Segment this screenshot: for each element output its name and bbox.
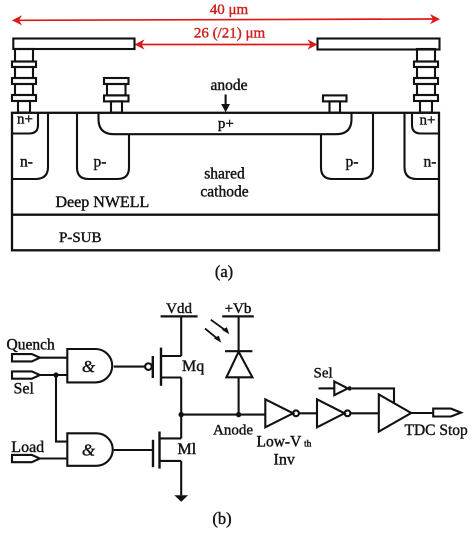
node at sel inverter output <box>348 386 352 390</box>
svg-text:40 μm: 40 μm <box>210 2 249 18</box>
svg-text:Ml: Ml <box>178 441 197 458</box>
wire Ml drain up to anode node <box>180 415 182 439</box>
transistor Mq (PMOS) <box>145 348 181 386</box>
wire sel branch down to AND2 <box>56 375 67 442</box>
wire buffer to pad <box>411 412 433 414</box>
wire Ml source down <box>180 461 182 495</box>
svg-text:n-: n- <box>424 154 437 171</box>
svg-text:Sel: Sel <box>14 380 35 397</box>
svg-text:Deep NWELL: Deep NWELL <box>56 194 150 211</box>
via stack right <box>414 49 438 113</box>
wire Mq source to Vdd <box>180 316 182 356</box>
svg-text:th: th <box>304 439 312 449</box>
svg-text:26 (/21) μm: 26 (/21) μm <box>194 26 266 42</box>
device outer box <box>12 113 439 251</box>
p+ region <box>99 113 352 134</box>
wire quench to AND1 <box>40 357 67 359</box>
metal plate right <box>318 39 440 50</box>
junction node at diode <box>236 412 241 417</box>
wire +Vb to diode cathode <box>238 316 240 351</box>
wire inv2 to buffer <box>350 412 378 414</box>
svg-text:Sel: Sel <box>314 366 333 382</box>
wire load to AND2 <box>40 457 67 459</box>
p- well right <box>321 113 373 179</box>
svg-text:p+: p+ <box>218 116 234 132</box>
svg-text:Mq: Mq <box>182 358 204 375</box>
svg-text:(a): (a) <box>215 262 233 281</box>
wire sel to buffer enable <box>352 388 394 403</box>
wire inv1 to inv2 <box>299 412 317 414</box>
svg-text:anode: anode <box>210 77 247 94</box>
input pad Quench <box>12 354 40 361</box>
svg-text:P-SUB: P-SUB <box>59 230 102 246</box>
n+ well left <box>12 113 38 134</box>
n- well right <box>405 113 439 179</box>
wire Mq drain to anode node <box>180 378 182 415</box>
light arrow 2 <box>205 329 217 339</box>
svg-text:p-: p- <box>94 154 107 171</box>
inverter U3 (sel, small) <box>334 382 348 396</box>
arrowhead right 40um <box>430 14 440 24</box>
arrowhead right 26um <box>308 39 318 49</box>
via stack left <box>12 49 36 113</box>
dimension arrow 40um <box>19 19 433 20</box>
Vdd rail <box>161 315 198 317</box>
svg-text:+Vb: +Vb <box>225 301 252 317</box>
svg-text:n-: n- <box>20 154 33 171</box>
svg-text:TDC Stop: TDC Stop <box>405 422 469 439</box>
svg-text:shared: shared <box>204 166 245 183</box>
svg-text:n+: n+ <box>420 113 436 129</box>
anode rail <box>181 414 265 416</box>
n+ well right <box>412 113 439 134</box>
svg-text:(b): (b) <box>212 509 231 528</box>
svg-text:&: & <box>82 440 96 459</box>
svg-text:Load: Load <box>11 439 44 456</box>
anode contact right <box>323 95 347 112</box>
transistor Ml (NMOS) <box>153 432 181 469</box>
n- well left <box>12 113 48 179</box>
wire sel stub <box>319 387 335 389</box>
buffer U4 <box>379 394 411 431</box>
input pad Sel <box>12 371 40 378</box>
dimension arrow 26um <box>141 44 311 46</box>
photodiode D1 <box>225 351 252 377</box>
p- well left <box>77 113 129 179</box>
svg-text:Inv: Inv <box>274 451 295 468</box>
svg-text:p-: p- <box>346 154 359 171</box>
arrowhead left 26um <box>135 39 145 49</box>
anode contact left <box>104 78 129 113</box>
svg-text:Anode: Anode <box>213 423 253 439</box>
inverter U2 <box>317 399 345 427</box>
inverter U1 (low-Vth) <box>265 399 293 427</box>
anode pointer arrow <box>225 95 227 107</box>
metal plate left <box>13 39 134 50</box>
wire AND2 to Ml gate <box>114 449 153 451</box>
svg-text:n+: n+ <box>17 112 33 128</box>
AND gate upper <box>67 349 112 382</box>
arrowhead left 40um <box>12 15 22 25</box>
+Vb rail <box>222 315 254 317</box>
wire diode anode down <box>238 377 240 414</box>
svg-text:cathode: cathode <box>200 183 248 200</box>
junction node sel <box>53 372 58 377</box>
svg-text:Low-V: Low-V <box>257 433 303 450</box>
svg-text:Vdd: Vdd <box>166 301 192 317</box>
wire sel to AND1 <box>40 374 67 376</box>
P-SUB divider line <box>12 214 439 216</box>
light arrow 1 <box>211 320 225 330</box>
wire AND1 to Mq gate <box>114 366 146 368</box>
junction node at Mq/Ml drain <box>179 412 184 417</box>
svg-text:&: & <box>82 357 96 376</box>
ground <box>174 495 188 502</box>
input pad Load <box>12 455 40 462</box>
svg-text:Quench: Quench <box>7 337 55 354</box>
output pad TDC Stop <box>433 409 461 417</box>
AND gate lower <box>67 433 112 466</box>
